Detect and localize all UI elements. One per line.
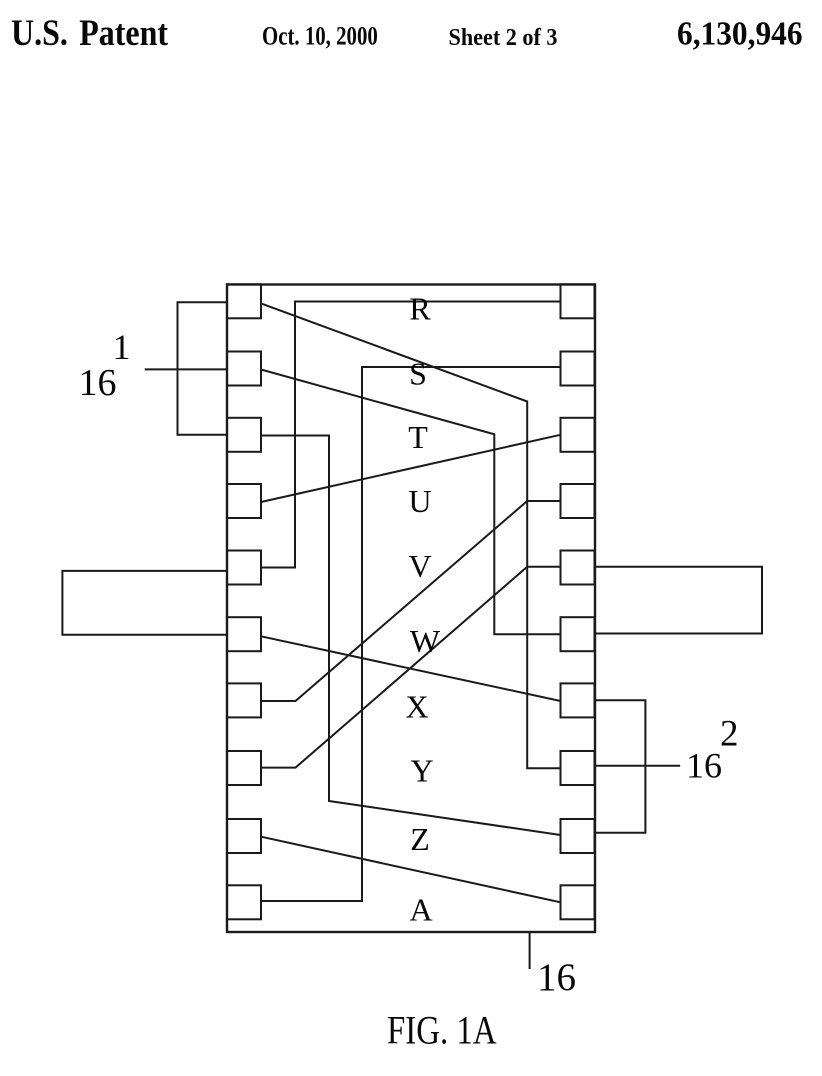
wire L6 to R7 [261,636,561,701]
pin R10 [561,885,595,919]
pin L4 [227,484,261,518]
svg-text:S: S [409,355,427,391]
svg-text:16: 16 [537,956,576,999]
wire L2 to R6 [261,370,561,635]
pin R9 [561,819,595,853]
wire L3 to R9 [261,436,561,836]
svg-text:FIG. 1A: FIG. 1A [387,1008,497,1053]
pin L8 [227,751,261,785]
pin R4 [561,484,595,518]
pin L9 [227,819,261,853]
leader line label 16 left [145,368,227,370]
pin L5 [227,551,261,585]
wire L10 to R2 [261,367,561,901]
svg-text:R: R [409,291,431,327]
pin L3 [227,418,261,452]
svg-text:U: U [408,483,431,519]
wire L1 to R8 [261,303,561,768]
svg-text:X: X [405,689,428,725]
svg-text:16: 16 [686,746,722,786]
svg-text:V: V [408,548,431,584]
pin R1 [561,284,595,318]
svg-text:W: W [410,623,441,659]
svg-text:A: A [409,892,432,928]
left cable tab [62,571,227,635]
pin R3 [561,418,595,452]
wire L4 to R3 [261,435,561,502]
svg-text:1: 1 [113,327,131,367]
svg-text:16: 16 [79,362,117,404]
wire L9 to R10 [261,837,561,903]
pin L10 [227,885,261,919]
svg-text:Y: Y [410,753,433,789]
pin R5 [561,551,595,585]
pin L7 [227,683,261,717]
wire L5 to R1 [261,302,561,568]
wire L8 to R5 [261,567,561,768]
right bracket for connector 2 [595,700,645,833]
svg-text:6,130,946: 6,130,946 [677,16,803,53]
svg-text:Oct. 10, 2000: Oct. 10, 2000 [262,22,378,51]
left bracket for connector 1 [178,302,228,435]
pin L2 [227,352,261,386]
pin R7 [561,683,595,717]
svg-text:Z: Z [410,821,430,857]
svg-text:2: 2 [720,714,739,755]
svg-text:T: T [408,419,428,455]
leader tick bottom 16 [529,932,531,969]
pin R6 [561,617,595,651]
leader line label 16 right [595,765,680,767]
pin L1 [227,284,261,318]
pin L6 [227,617,261,651]
right cable tab [595,567,762,634]
pin R8 [561,751,595,785]
pin R2 [561,352,595,386]
wire L7 to R4 [261,501,561,701]
svg-text:U.S. Patent: U.S. Patent [11,13,169,54]
svg-text:Sheet 2 of 3: Sheet 2 of 3 [449,25,558,51]
switch box outline [227,285,595,933]
